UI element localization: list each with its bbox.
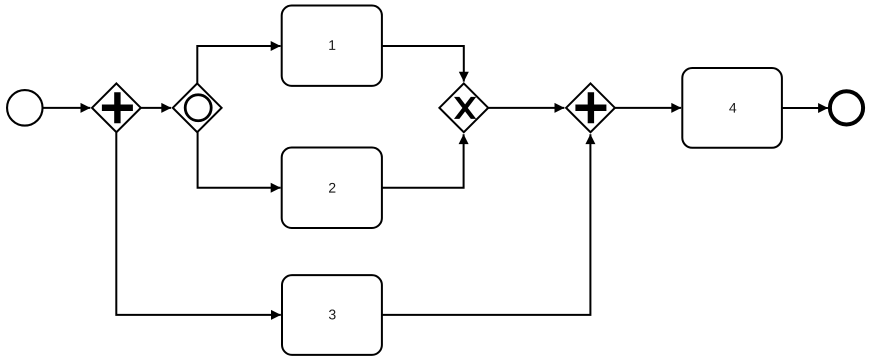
wire G2 down to task 2 — [197, 132, 280, 188]
task 1 box — [282, 6, 382, 86]
wire G1 down to task 3 — [116, 132, 280, 315]
end event — [830, 91, 863, 124]
parallel gateway G3 plus marker — [575, 92, 606, 123]
parallel gateway G1 plus marker — [102, 92, 133, 123]
wire task 2 to gateway X — [382, 134, 464, 188]
task 4 label — [729, 103, 736, 113]
task 3 box — [282, 275, 382, 355]
task 1 label — [329, 40, 335, 50]
wire G2 up to task 1 — [197, 46, 280, 83]
exclusive gateway X diamond — [439, 83, 488, 132]
wire G1 to gateway G2 — [141, 107, 171, 109]
task 2 box — [282, 148, 382, 229]
exclusive gateway X marker — [455, 98, 474, 119]
inclusive gateway G2 diamond — [173, 83, 222, 132]
wire task 4 to end event — [782, 107, 828, 109]
wire task 1 to gateway X — [382, 46, 464, 82]
task 3 label — [329, 310, 336, 320]
wire start event to gateway G1 — [43, 107, 91, 109]
parallel gateway G3 diamond — [566, 83, 615, 132]
wire gateway X to gateway G3 — [488, 107, 564, 109]
task 2 label — [329, 183, 335, 193]
start event — [7, 90, 43, 126]
wire task 3 to gateway G3 — [382, 134, 591, 315]
wire G3 to task 4 — [615, 107, 681, 109]
parallel gateway G1 diamond — [92, 83, 141, 132]
inclusive gateway G2 circle marker — [185, 95, 211, 121]
task 4 box — [682, 68, 782, 148]
